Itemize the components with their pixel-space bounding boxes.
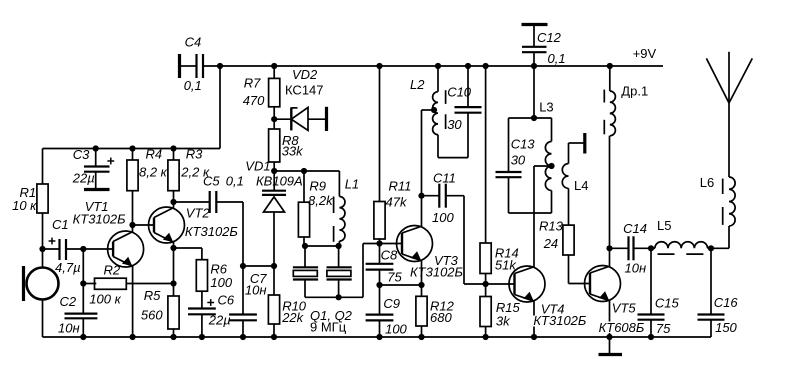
svg-text:100: 100 [432,210,454,225]
node VT5 emitter ground [606,334,612,340]
svg-text:0,1: 0,1 [226,174,244,189]
wire audio supply line [43,148,221,150]
svg-text:560: 560 [141,308,163,323]
svg-text:Др.1: Др.1 [621,84,648,99]
terminal bar [583,133,586,154]
capacitor C12 [522,25,566,67]
wire L3 feed down [533,66,535,118]
wire +9V top rail [204,65,664,67]
inductor L1 [334,171,360,246]
microphone BM1 [24,266,59,301]
svg-text:C6: C6 [218,293,235,308]
wire R7 to R8 [273,107,275,129]
crystal Q1 [293,246,318,297]
svg-text:22k: 22k [281,310,304,325]
node R9 top [301,168,307,174]
node L5 right [708,245,714,251]
node VT4 emitter ground [531,334,537,340]
svg-text:0,1: 0,1 [548,51,566,66]
wire VT3 collector up [421,110,423,227]
svg-text:33k: 33k [282,144,304,159]
svg-text:L2: L2 [410,77,425,92]
svg-text:L3: L3 [539,100,553,115]
svg-text:C3: C3 [73,147,90,162]
svg-text:8,2k: 8,2k [308,193,334,208]
svg-text:C12: C12 [537,30,562,45]
capacitor C11 [422,171,465,226]
svg-text:150: 150 [715,320,737,335]
node L2 rail [435,63,441,69]
svg-text:КТ3102Б: КТ3102Б [533,313,587,328]
capacitor C7 [229,266,267,337]
resistor R8 [269,129,305,162]
node C3 junction [93,145,99,151]
svg-text:75: 75 [387,270,402,285]
svg-text:R11: R11 [389,179,412,194]
wire R2 to R5 top [126,283,173,285]
node C9 ground [376,334,382,340]
node R5 ground [170,334,176,340]
node VT1 base / R2 / C2 [80,246,86,252]
crystal Q2 [327,246,352,297]
wire VT5 emitter down [609,300,611,337]
node R14 rail [483,63,489,69]
wire feed down [219,66,221,149]
wire R4 to VT1 collector [132,191,134,233]
wire crystal bottom line [305,296,363,298]
transistor VT2 [149,207,185,243]
capacitor C5 [174,174,244,214]
node R2 left [80,280,86,286]
svg-text:КТ608Б: КТ608Б [599,320,645,335]
svg-text:22µ: 22µ [208,313,231,328]
capacitor C8 [366,244,403,286]
wire R3 to VT2 collector / C5 node [173,191,175,208]
wire VT1 emitter to ground [132,266,134,337]
wire tank bottom [438,157,468,159]
svg-text:VD1: VD1 [245,159,270,174]
wire VT4 emitter to ground [533,301,535,337]
node C15 ground [648,334,654,340]
wire VT3 emitter down [421,260,423,296]
wire R9 to crystal line [303,237,305,246]
svg-text:КВ109А: КВ109А [256,174,303,189]
resistor R6 [196,260,233,292]
capacitor C15 [638,248,680,337]
svg-text:0,1: 0,1 [184,78,202,93]
wire VT2 emitter down [173,242,175,284]
node C10 rail [465,63,471,69]
node R15 ground [483,334,489,340]
svg-text:680: 680 [430,310,452,325]
resistor R11 [374,66,411,244]
node R3 junction [170,145,176,151]
varicap diode VD1 КВ109А [245,159,302,267]
svg-text:100: 100 [385,322,407,337]
svg-text:C2: C2 [60,294,77,309]
node C6 ground [199,334,205,340]
svg-text:C9: C9 [383,296,400,311]
svg-text:C14: C14 [623,221,647,236]
svg-text:R5: R5 [144,288,161,303]
node VT2 collector [170,199,176,205]
svg-text:L4: L4 [574,178,588,193]
resistor R3 [168,147,210,191]
wire tank top [509,117,552,119]
node C7 ground [240,334,246,340]
node VD1 anode / R10 [271,263,277,269]
node L2 tap [431,107,437,113]
resistor R14 [480,66,519,284]
svg-text:47k: 47k [386,195,408,210]
svg-text:C13: C13 [511,137,536,152]
wire R13 to VT5 base [569,283,591,285]
node L5 left [648,245,654,251]
svg-text:L1: L1 [345,177,359,192]
capacitor C10 [447,66,481,158]
svg-text:R7: R7 [244,76,261,91]
svg-text:R9: R9 [309,179,326,194]
node R11 rail [376,63,382,69]
capacitor C3 [72,147,114,190]
svg-text:C1: C1 [52,217,69,232]
node VT1 emitter ground [130,334,136,340]
svg-text:+9V: +9V [633,46,657,61]
choke Др.1 [604,66,648,136]
resistor R1 [12,149,48,214]
resistor R5 [141,284,179,338]
node Q1 top [302,243,308,249]
transistor VT1 [108,231,144,267]
svg-text:22µ: 22µ [72,171,95,186]
inductor L2 [410,66,446,158]
wire L5 node to L6 [711,247,729,249]
transistor VT3 [397,226,433,262]
svg-text:10н: 10н [625,261,647,276]
capacitor C14 [610,221,652,276]
svg-text:VD2: VD2 [292,67,318,82]
svg-text:10н: 10н [58,321,80,336]
resistor R9 [298,171,334,237]
svg-text:C8: C8 [381,248,398,263]
svg-text:C4: C4 [185,35,202,50]
wire C1 to VT1 base [66,248,113,250]
node C8/C9 junction [376,282,382,288]
capacitor C16 [698,248,739,337]
svg-text:R4: R4 [146,147,163,162]
svg-text:КТ3102Б: КТ3102Б [410,265,464,280]
antenna WA1 [706,52,752,177]
wire C5 to varicap node [216,201,243,203]
svg-text:100 к: 100 к [89,292,121,307]
wire VT2 base [133,224,155,226]
resistor R12 [416,296,455,337]
wire C11 to VT4 base node [463,196,465,284]
svg-text:VT2: VT2 [186,206,211,221]
wire VT4 base [486,283,515,285]
svg-text:КС147: КС147 [285,83,324,98]
svg-text:100: 100 [210,275,232,290]
svg-text:470: 470 [243,93,265,108]
wire R1 to mic node [42,213,44,268]
capacitor C2 [58,294,97,337]
svg-text:10н: 10н [245,283,267,298]
svg-text:L6: L6 [700,175,714,190]
node VT2 emitter / R6 branch [170,245,176,251]
wire L4 to antenna terminal [569,142,584,144]
capacitor C9 [366,285,408,337]
svg-text:10 к: 10 к [12,198,37,213]
wire VT2 emitter to R6 [174,247,202,249]
node C7 top [240,263,246,269]
ground symbol [599,337,623,355]
inductor L5 [651,218,711,254]
svg-text:C5: C5 [203,174,220,189]
svg-text:КТ3102Б: КТ3102Б [185,224,239,239]
wire mic to ground rail [42,300,44,338]
wire tank bottom [509,212,552,214]
node C2 ground [80,334,86,340]
capacitor C6 [188,291,235,337]
svg-text:9 МГц: 9 МГц [310,320,347,335]
wire crystal top line [304,245,339,247]
wire R8 to VD1 [273,162,275,192]
svg-text:КТ3102Б: КТ3102Б [73,212,127,227]
svg-text:4,7µ: 4,7µ [55,260,81,275]
wire C8 node to VT3 emitter [380,284,422,286]
svg-text:C15: C15 [655,296,680,311]
node mic/C1 [39,246,45,252]
node C11 tap [418,193,424,199]
inductor L4 [562,143,588,225]
wire ground bottom rail [43,336,712,338]
wire VT4 collector to L3 tap [533,166,535,267]
svg-text:R13: R13 [539,219,564,234]
inductor L3 [545,118,551,213]
node R4 junction [129,145,135,151]
node C12 rail / L3 feed [531,63,537,69]
wire L3 tap to VT4 collector [534,165,552,167]
resistor R7 [243,66,280,108]
svg-text:8,2 к: 8,2 к [139,165,168,180]
node VD1 top [271,168,277,174]
resistor R13 [539,219,574,284]
node C14 tap [606,245,612,251]
svg-text:51k: 51k [495,258,517,273]
svg-text:C16: C16 [714,295,739,310]
node: rail to audio-stage feed [217,63,223,69]
wire base node down [82,249,84,314]
node L3 tap [548,163,554,169]
resistor R4 [127,147,168,191]
capacitor C1 [43,217,81,275]
svg-text:3k: 3k [496,314,511,329]
svg-text:30: 30 [447,117,462,132]
transistor VT5 [585,266,621,302]
node R7 rail [271,63,277,69]
transistor VT4 [509,266,545,302]
wire VT5 collector up [609,136,611,267]
resistor R15 [480,284,521,337]
svg-text:30: 30 [511,153,526,168]
wire varicap node to R9 and L1 [274,170,339,172]
node tank top [531,115,537,121]
node R12 ground [418,334,424,340]
node VT3 emitter / R12 [418,282,424,288]
node VT3 base / R11 / C8 [376,240,382,246]
wire node to VD1 anode [243,265,274,267]
node VT4 base [483,281,489,287]
resistor R2 [83,263,126,307]
node +9V / choke [607,63,613,69]
node R10 ground [271,334,277,340]
svg-text:R3: R3 [186,147,203,162]
wire crystals to VT3 base [362,244,364,298]
svg-text:C10: C10 [447,85,472,100]
capacitor C13 [496,118,536,213]
node VT2 base tap [129,222,135,228]
resistor R10 [268,266,306,337]
node VD2 tap [271,116,277,122]
svg-text:75: 75 [656,321,671,336]
svg-text:VT5: VT5 [612,301,637,316]
wire L2 tap to VT3 collector [422,109,436,111]
svg-text:C11: C11 [433,171,456,186]
node Q2 top [336,243,342,249]
capacitor C4 [180,35,204,94]
svg-text:24: 24 [543,236,558,251]
zener diode VD2 КС147 [274,67,326,131]
node R5 top [170,280,176,286]
inductor L6 [700,175,735,248]
node crystal bottom junction [336,294,342,300]
svg-text:L5: L5 [657,218,671,233]
